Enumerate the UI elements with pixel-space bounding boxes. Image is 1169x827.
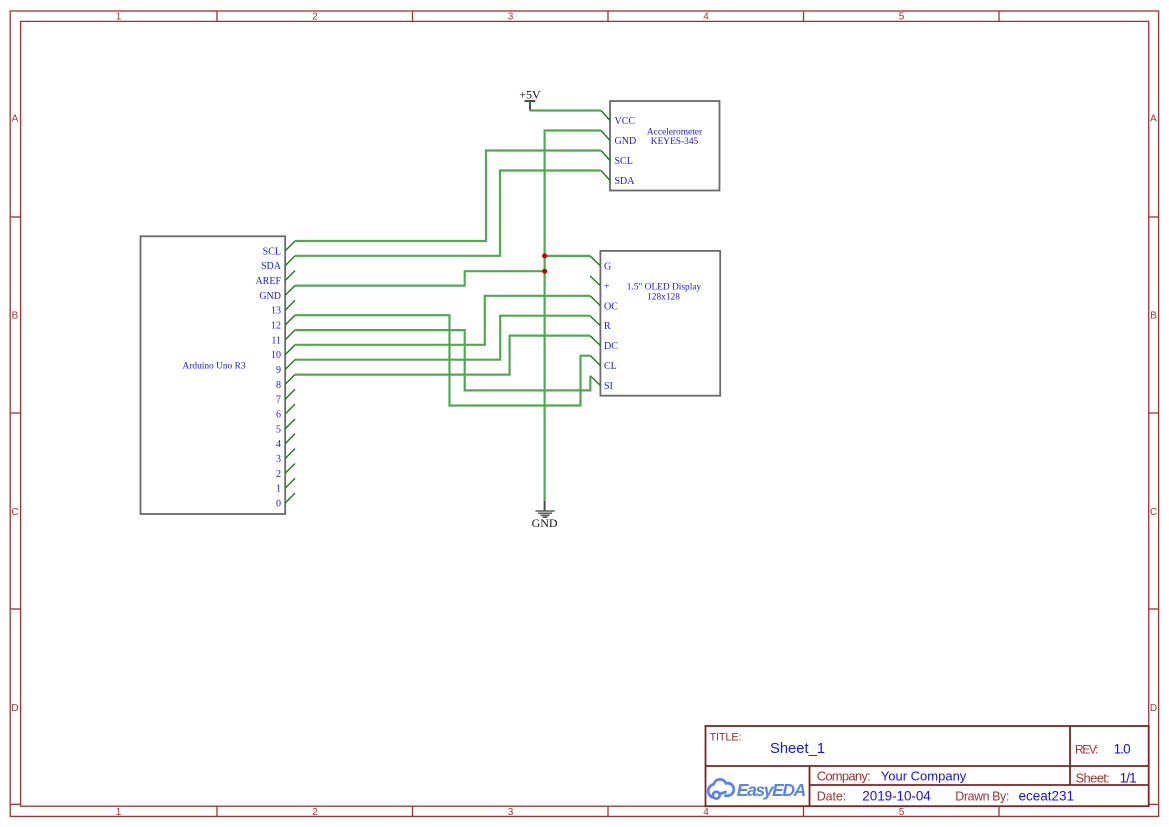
svg-text:5: 5	[899, 12, 905, 23]
svg-text:Sheet:: Sheet:	[1076, 771, 1110, 786]
svg-text:eceat231: eceat231	[1019, 789, 1075, 804]
svg-text:GND: GND	[259, 291, 281, 302]
svg-text:9: 9	[276, 365, 281, 376]
svg-text:1.5" OLED Display: 1.5" OLED Display	[627, 283, 702, 293]
svg-text:Your Company: Your Company	[881, 768, 967, 783]
svg-text:3: 3	[276, 454, 281, 465]
svg-text:DC: DC	[604, 341, 618, 352]
title block values	[770, 741, 1137, 803]
frame column ticks top	[217, 11, 999, 21]
svg-text:D: D	[1150, 703, 1157, 714]
svg-text:SDA: SDA	[261, 261, 282, 272]
svg-text:4: 4	[703, 807, 709, 818]
wire net D11 to U3 SI	[295, 330, 590, 390]
svg-text:0: 0	[276, 499, 281, 510]
svg-text:B: B	[1150, 311, 1157, 322]
component U3 1.5" OLED Display body	[600, 251, 720, 396]
svg-text:8: 8	[276, 380, 281, 391]
svg-text:3: 3	[508, 807, 514, 818]
svg-text:Drawn By:: Drawn By:	[955, 790, 1009, 804]
svg-text:SDA: SDA	[615, 176, 636, 187]
svg-text:A: A	[1150, 114, 1157, 125]
U1 pin stubs (diagonal pins)	[285, 241, 295, 503]
svg-text:EasyEDA: EasyEDA	[737, 780, 807, 800]
svg-text:VCC: VCC	[615, 116, 636, 127]
wire net D9 to U3 R	[295, 316, 590, 360]
svg-text:D: D	[11, 703, 18, 714]
power flag +5V	[519, 88, 541, 111]
EasyEDA logo cloud	[708, 779, 734, 798]
frame column ticks bottom	[217, 806, 999, 816]
svg-text:11: 11	[271, 335, 281, 346]
svg-text:7: 7	[276, 395, 281, 406]
svg-text:6: 6	[276, 410, 281, 421]
svg-text:1.0: 1.0	[1114, 742, 1131, 757]
svg-text:4: 4	[276, 439, 281, 450]
wire net SCL (U1 SCL to U2 SCL)	[295, 151, 601, 242]
svg-text:REV:: REV:	[1075, 743, 1098, 757]
frame column labels bottom	[116, 807, 905, 818]
svg-text:2: 2	[312, 807, 318, 818]
frame row ticks left	[10, 217, 20, 609]
wire net GND main vertical	[545, 131, 601, 501]
svg-text:2: 2	[276, 469, 281, 480]
svg-text:13: 13	[271, 306, 281, 317]
U3 pin stubs	[590, 256, 600, 386]
frame row labels left	[11, 114, 18, 715]
ground symbol GND	[532, 501, 558, 530]
svg-text:1: 1	[116, 807, 122, 818]
svg-text:A: A	[12, 114, 19, 125]
U2 pin labels	[615, 116, 637, 187]
svg-text:Sheet_1: Sheet_1	[770, 741, 825, 757]
frame row labels right	[1150, 114, 1157, 715]
svg-text:R: R	[604, 321, 611, 332]
svg-text:1: 1	[276, 484, 281, 495]
svg-text:+: +	[604, 281, 610, 292]
svg-text:OC: OC	[604, 301, 618, 312]
wire net G (junction to U3 G)	[545, 255, 590, 257]
junction node GND-branch	[542, 269, 547, 274]
svg-text:10: 10	[271, 350, 281, 361]
U3 pin labels	[604, 261, 618, 392]
svg-text:3: 3	[508, 12, 514, 23]
svg-text:AREF: AREF	[255, 276, 281, 287]
svg-text:SCL: SCL	[615, 156, 633, 167]
svg-text:KEYES-345: KEYES-345	[651, 137, 699, 147]
svg-text:12: 12	[271, 321, 281, 332]
component U2 Accelerometer KEYES-345 body	[610, 101, 720, 191]
svg-text:Company:: Company:	[817, 768, 871, 783]
svg-text:TITLE:: TITLE:	[710, 731, 742, 743]
frame row ticks right	[1149, 217, 1159, 609]
svg-text:GND: GND	[532, 516, 558, 530]
svg-text:SCL: SCL	[263, 246, 281, 257]
junction node GND-G	[542, 253, 547, 258]
wire net SDA (U1 SDA to U2 SDA)	[295, 171, 601, 256]
svg-text:1: 1	[116, 12, 122, 23]
title block outline	[706, 726, 1149, 806]
U1 pin labels	[255, 246, 281, 509]
component U1 Arduino Uno R3 body	[141, 236, 286, 514]
svg-text:Arduino Uno R3: Arduino Uno R3	[182, 361, 245, 371]
svg-text:5: 5	[899, 807, 905, 818]
svg-text:2019-10-04: 2019-10-04	[862, 789, 931, 804]
svg-text:1/1: 1/1	[1120, 771, 1137, 786]
svg-text:128x128: 128x128	[647, 292, 680, 302]
svg-text:2: 2	[312, 12, 318, 23]
wire net +5V to U2 VCC	[530, 109, 601, 111]
svg-text:C: C	[11, 507, 18, 518]
svg-text:C: C	[1150, 507, 1157, 518]
wire net D10 to U3 OC	[295, 296, 590, 345]
svg-text:CL: CL	[604, 361, 617, 372]
svg-text:GND: GND	[615, 136, 637, 147]
title block labels	[710, 731, 1110, 803]
U2 pin stubs	[601, 111, 610, 181]
wire net D8 to U3 DC	[295, 336, 590, 375]
frame column labels top	[116, 12, 905, 23]
svg-text:G: G	[604, 261, 611, 272]
svg-text:Date:: Date:	[817, 790, 847, 804]
svg-text:B: B	[12, 311, 19, 322]
svg-text:4: 4	[703, 12, 709, 23]
svg-text:+5V: +5V	[519, 88, 541, 102]
svg-text:SI: SI	[604, 381, 613, 392]
wire net GND branch U1 GND	[295, 271, 545, 285]
wire net D12 to U3 CL	[295, 315, 591, 405]
svg-text:5: 5	[276, 424, 281, 435]
